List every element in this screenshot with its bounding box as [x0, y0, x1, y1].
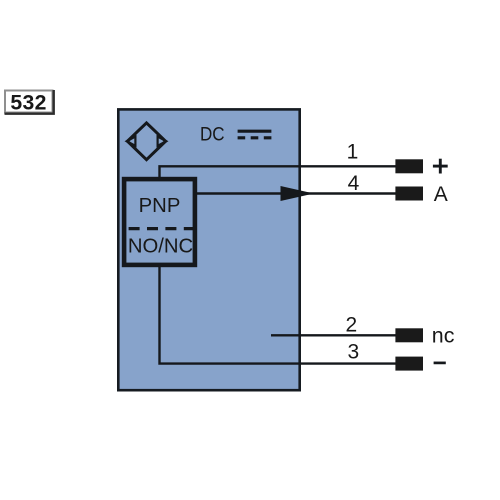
svg-text:532: 532 — [10, 92, 47, 115]
sensor symbol left arrow — [127, 137, 136, 146]
sensor body (blue housing) — [118, 109, 299, 390]
svg-text:A: A — [434, 183, 448, 206]
pin 2 terminal — [395, 328, 423, 342]
wire 1 (from output stage top to pin 1) — [160, 166, 396, 179]
svg-text:PNP: PNP — [139, 195, 181, 217]
DC supply symbol solid line — [238, 130, 272, 133]
wire 4 (from output stage right to pin 4) — [194, 192, 396, 194]
DC supply symbol dashed line — [238, 136, 272, 139]
label + (supply plus, pin 1) — [433, 159, 448, 174]
pin 4 terminal — [395, 187, 423, 201]
svg-text:4: 4 — [348, 172, 360, 195]
svg-text:3: 3 — [347, 341, 359, 364]
figure label box 532 — [5, 90, 54, 114]
svg-text:NO/NC: NO/NC — [128, 235, 193, 257]
svg-text:1: 1 — [347, 140, 359, 163]
sensor symbol diamond — [127, 123, 165, 160]
wire 3 (from output stage bottom to pin 3) — [160, 265, 396, 364]
dashed divider NO/NC — [129, 227, 194, 230]
label - (supply minus, pin 3) — [434, 362, 446, 365]
svg-text:nc: nc — [432, 324, 455, 348]
svg-text:2: 2 — [345, 314, 357, 337]
arrow on wire 4 (output) — [281, 187, 312, 201]
svg-text:DC: DC — [200, 123, 225, 145]
pin 1 terminal — [395, 159, 423, 173]
wire 2 (nc, from inside housing to pin 2) — [271, 334, 396, 336]
sensor symbol right arrow — [158, 137, 167, 146]
pin 3 terminal — [395, 357, 423, 371]
output stage box U1 — [124, 179, 195, 265]
